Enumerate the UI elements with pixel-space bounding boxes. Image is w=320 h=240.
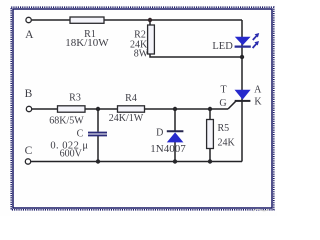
terminal B: [26, 106, 31, 111]
svg-text:LED: LED: [212, 41, 233, 52]
svg-text:8W: 8W: [134, 48, 149, 59]
wire R4 to gate run: [145, 108, 229, 110]
junction node cap top: [96, 107, 100, 111]
svg-text:D: D: [156, 128, 163, 139]
resistor R4: [118, 106, 145, 112]
svg-text:B: B: [25, 88, 33, 100]
wire R5 stem: [209, 109, 211, 162]
resistor R1: [70, 17, 104, 23]
wire top rail A to right corner: [32, 19, 243, 21]
wire bottom rail: [31, 161, 242, 163]
LED emission arrow 1: [253, 33, 259, 40]
svg-text:G: G: [219, 98, 226, 109]
svg-text:68K/5W: 68K/5W: [49, 115, 84, 126]
junction node cap bottom: [96, 159, 100, 163]
watermark scribble bottom right: [253, 209, 269, 211]
diode D 1N4007 triangle: [167, 132, 184, 142]
svg-text:A: A: [254, 85, 262, 96]
junction node R5 top: [208, 107, 212, 111]
wire diode D stem: [174, 109, 176, 162]
resistor R3: [58, 106, 86, 112]
terminal C: [25, 159, 30, 164]
svg-text:18K/10W: 18K/10W: [65, 37, 109, 49]
LED cathode bar: [235, 45, 251, 47]
svg-text:C: C: [77, 129, 84, 140]
LED emission arrow 2: [253, 41, 259, 48]
capacitor C plates: [88, 132, 107, 134]
junction node R5 bottom: [208, 159, 212, 163]
junction node diode bottom: [173, 159, 177, 163]
svg-text:24K/1W: 24K/1W: [109, 113, 144, 124]
frame border inner solid: [13, 9, 272, 208]
wire capacitor stem: [97, 109, 99, 162]
svg-text:T: T: [220, 85, 226, 96]
wire R3 to cap node: [85, 108, 118, 110]
wire mid rail B to R3: [32, 108, 58, 110]
LED D triangle: [235, 37, 251, 45]
resistor R5: [207, 120, 214, 149]
svg-text:1N4007: 1N4007: [150, 143, 186, 155]
svg-text:C: C: [25, 145, 33, 157]
thyristor cathode bar: [235, 100, 251, 102]
junction node top (R2/top rail): [148, 18, 152, 22]
thyristor T triangle: [235, 90, 251, 100]
svg-text:R5: R5: [218, 123, 230, 134]
frame border outer dashed: [11, 7, 274, 210]
junction node LED bottom: [240, 55, 244, 59]
junction node diode top: [173, 107, 177, 111]
resistor R2: [148, 25, 155, 54]
svg-text:600V: 600V: [60, 149, 83, 160]
wire gate diagonal: [228, 101, 236, 109]
wire R2 stem top: [149, 20, 151, 25]
svg-text:R4: R4: [125, 93, 137, 104]
wire right vertical rail: [241, 20, 243, 162]
terminal A: [26, 17, 31, 22]
svg-text:R3: R3: [69, 93, 81, 104]
svg-text:A: A: [25, 29, 34, 41]
svg-text:24K: 24K: [218, 138, 236, 149]
wire R2 stem bottom and across to LED rail: [150, 54, 242, 57]
svg-text:K: K: [254, 97, 262, 108]
diode D 1N4007 bar: [167, 130, 184, 132]
